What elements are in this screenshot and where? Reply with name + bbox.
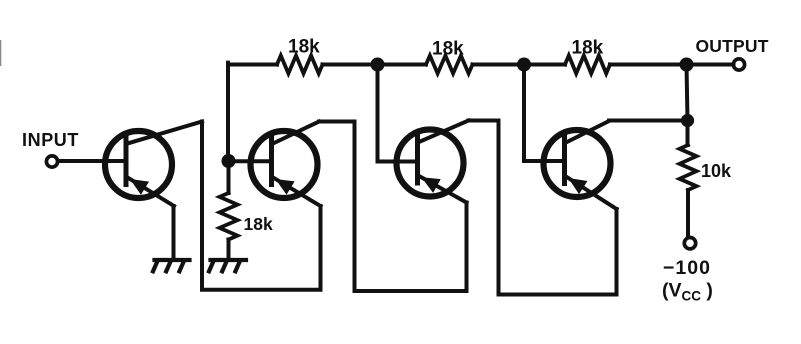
svg-text:18k: 18k xyxy=(572,38,604,59)
svg-text:10k: 10k xyxy=(701,161,732,181)
svg-text:−100: −100 xyxy=(663,257,711,279)
svg-text:18k: 18k xyxy=(244,214,273,234)
svg-text:18k: 18k xyxy=(288,37,320,58)
svg-text:OUTPUT: OUTPUT xyxy=(696,36,769,56)
svg-text:18k: 18k xyxy=(432,39,464,60)
svg-text:INPUT: INPUT xyxy=(22,130,79,150)
